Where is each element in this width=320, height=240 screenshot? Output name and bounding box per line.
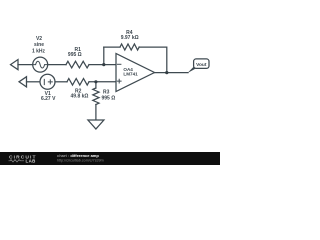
- wire node down to R3: [95, 82, 97, 88]
- wire R2 to opamp plus: [89, 81, 116, 83]
- opamp minus sign: [117, 63, 121, 65]
- opamp plus sign: [117, 79, 121, 83]
- resistor R4 zigzag: [120, 44, 139, 50]
- sine glyph inside V2: [34, 61, 47, 68]
- svg-text:sine: sine: [34, 42, 44, 48]
- svg-text:LM741: LM741: [123, 72, 138, 77]
- svg-text:LAB: LAB: [26, 159, 36, 164]
- Vout flag box: [194, 59, 209, 69]
- resistor R1 zigzag: [66, 61, 89, 68]
- source V1 dc circle: [40, 74, 55, 89]
- wire R3 to ground: [95, 105, 97, 121]
- svg-text:9.97 kΩ: 9.97 kΩ: [121, 35, 139, 41]
- wire A2 to V1: [27, 81, 41, 83]
- wire to R4 left: [104, 46, 120, 48]
- svg-text:1 kHz: 1 kHz: [32, 49, 46, 55]
- svg-text:http://circuitlab.com/c/7s39m: http://circuitlab.com/c/7s39m: [57, 159, 104, 163]
- op-amp U OA4 triangle: [116, 54, 155, 92]
- svg-text:995 Ω: 995 Ω: [68, 52, 82, 58]
- Vout flag pointer: [187, 67, 199, 73]
- wire node up to R4: [103, 47, 105, 65]
- resistor R2 zigzag: [67, 79, 89, 86]
- junction node R1/R4: [102, 63, 105, 66]
- wire R1 to opamp minus: [89, 64, 116, 66]
- junction node output/R4: [165, 71, 168, 74]
- wire A1 to V2: [18, 64, 33, 66]
- wire V2 to R1: [48, 64, 66, 66]
- wire V1 to R2: [55, 81, 67, 83]
- svg-text:995 Ω: 995 Ω: [102, 96, 116, 102]
- input flag arrow A2: [19, 77, 27, 87]
- output wire: [155, 72, 189, 74]
- svg-text:49.8 kΩ: 49.8 kΩ: [71, 93, 89, 99]
- junction node R2/R3: [94, 80, 97, 83]
- source V2 sine circle: [33, 57, 48, 72]
- svg-text:6.27 V: 6.27 V: [41, 96, 56, 102]
- footer bar: [0, 152, 220, 165]
- resistor R3 zigzag vertical: [93, 88, 99, 105]
- footer logo squiggle: [9, 160, 25, 162]
- V1 dc glyph bar and plus: [44, 79, 52, 84]
- input flag arrow A1: [11, 60, 19, 70]
- wire R4 right to corner: [139, 47, 167, 73]
- ground symbol: [88, 120, 104, 129]
- svg-text:chart : difference amp: chart : difference amp: [57, 153, 99, 158]
- svg-text:Vout: Vout: [196, 62, 207, 68]
